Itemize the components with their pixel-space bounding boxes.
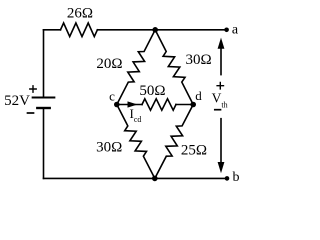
terminal b dot <box>225 176 230 181</box>
svg-text:25Ω: 25Ω <box>181 142 207 158</box>
battery plus sign <box>30 86 36 92</box>
resistor R 50ohm (c to d) <box>142 99 176 110</box>
wire left upper (top wire to battery +) <box>43 30 45 97</box>
svg-text:50Ω: 50Ω <box>139 83 165 99</box>
battery 52V plate long (+) <box>33 97 55 99</box>
svg-text:a: a <box>232 23 239 38</box>
wire top-right (26ohm to terminal a) <box>97 29 226 31</box>
wire bottom (to terminal b) <box>44 177 228 179</box>
resistor R 30ohm bottom-left (c to bottom node) <box>117 105 155 179</box>
wire left lower (battery - to bottom wire) <box>43 109 45 178</box>
svg-text:c: c <box>109 89 115 104</box>
svg-text:b: b <box>233 170 240 185</box>
resistor R 26ohm <box>61 23 98 37</box>
wire c to 50ohm (with current arrow) <box>117 104 142 106</box>
svg-text:30Ω: 30Ω <box>96 140 122 156</box>
node c junction <box>114 102 120 108</box>
terminal a dot <box>224 28 229 33</box>
node junction bottom <box>152 176 158 182</box>
battery minus sign <box>28 112 34 114</box>
wire top-left (source to 26ohm) <box>44 29 61 31</box>
battery 52V plate short (-) <box>37 107 49 109</box>
svg-text:52V: 52V <box>4 93 30 109</box>
Vth arrow up shaft <box>220 47 222 75</box>
svg-text:26Ω: 26Ω <box>67 6 93 22</box>
Vth arrow down shaft <box>220 119 222 164</box>
node junction top <box>152 27 158 33</box>
Vth arrowhead down <box>218 162 225 173</box>
Vth minus sign <box>215 109 221 111</box>
svg-text:30Ω: 30Ω <box>186 52 212 68</box>
node d junction <box>190 102 196 108</box>
resistor R 20ohm (top node to c) <box>117 30 155 105</box>
Vth plus sign <box>217 83 223 89</box>
resistor R 25ohm (d to bottom node) <box>155 105 193 179</box>
current arrowhead Icd <box>128 101 138 107</box>
wire 50ohm to d <box>176 104 193 106</box>
svg-text:Vth: Vth <box>212 91 228 110</box>
svg-text:20Ω: 20Ω <box>96 56 122 72</box>
svg-text:Icd: Icd <box>130 106 142 124</box>
svg-text:d: d <box>195 88 202 103</box>
resistor R 30ohm top-right (top node to d) <box>155 30 193 105</box>
Vth arrowhead up <box>218 38 225 49</box>
